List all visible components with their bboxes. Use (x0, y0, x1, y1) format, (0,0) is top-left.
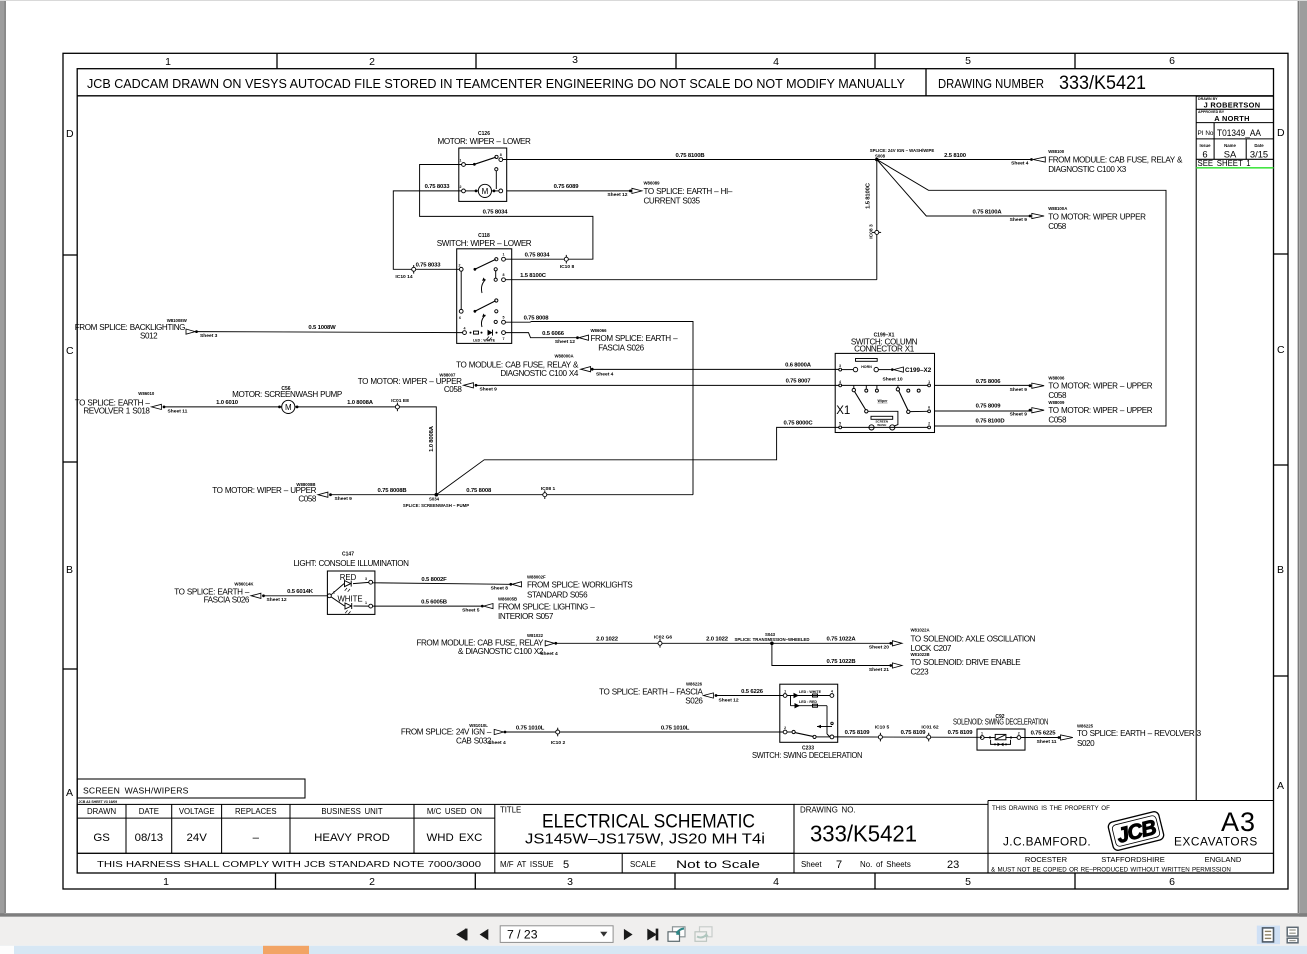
svg-text:5: 5 (965, 55, 971, 67)
svg-text:333/K5421: 333/K5421 (810, 821, 917, 847)
svg-text:5: 5 (563, 859, 569, 871)
svg-text:3: 3 (839, 364, 841, 368)
connector X1 box (835, 332, 934, 432)
svg-text:IC10 8: IC10 8 (560, 264, 575, 270)
JCB logo (1107, 811, 1164, 852)
svg-text:0.75 8034: 0.75 8034 (525, 253, 551, 259)
svg-text:2.0 1022: 2.0 1022 (706, 637, 729, 643)
connector IC08 1 (541, 486, 556, 499)
wire 8034 motor pin1 loop to switch pin1 (420, 165, 593, 260)
svg-text:STAFFORDSHIRE: STAFFORDSHIRE (1101, 855, 1165, 864)
svg-text:INTERIOR S057: INTERIOR S057 (498, 612, 554, 621)
toolbar continuous layout button (1287, 927, 1298, 943)
svg-text:C126: C126 (478, 131, 490, 137)
wire 8000C X1 pin5 to splice S034 (436, 427, 839, 494)
toolbar rotate-view icon active (668, 927, 685, 942)
svg-text:TO SPLICE: EARTH – HI–: TO SPLICE: EARTH – HI– (644, 187, 733, 196)
title block: harness note row (77, 852, 1273, 854)
svg-text:TITLE: TITLE (500, 806, 521, 815)
svg-text:DRAWING NUMBER: DRAWING NUMBER (938, 76, 1044, 91)
wire 8100D splice diagonal to loop and X1 pin2 (877, 160, 1166, 427)
svg-text:IC01 62: IC01 62 (921, 724, 938, 730)
connector IC01 E8 (391, 398, 409, 411)
svg-text:REVOLVER 1 S018: REVOLVER 1 S018 (83, 407, 150, 416)
svg-text:C199–X2: C199–X2 (905, 367, 932, 374)
svg-text:C: C (1277, 344, 1285, 356)
svg-text:T01349_AA: T01349_AA (1217, 127, 1262, 138)
svg-text:W88000A: W88000A (555, 354, 574, 359)
title block: property box (987, 801, 989, 874)
svg-text:0.5 8002F: 0.5 8002F (421, 577, 447, 583)
svg-text:REPLACES: REPLACES (235, 807, 277, 816)
svg-text:ROCESTER: ROCESTER (1025, 855, 1068, 864)
svg-text:Name: Name (1224, 143, 1236, 148)
svg-text:1: 1 (784, 689, 786, 693)
svg-text:CAB S032: CAB S032 (456, 737, 492, 746)
svg-text:W81022: W81022 (527, 633, 544, 638)
row letters right (1277, 127, 1285, 792)
svg-text:IC10 5: IC10 5 (875, 724, 890, 730)
svg-text:Date: Date (1254, 143, 1264, 148)
wire 8000A module X4 arrow to X1 pin3 (594, 368, 839, 370)
column tick marks bottom (276, 873, 1076, 889)
wire 6005B C147 pin1 to lighting arrow (373, 605, 481, 607)
svg-text:0.75 6225: 0.75 6225 (1031, 731, 1057, 737)
motor screenwash pump C56 (232, 386, 342, 413)
svg-text:DIAGNOSTIC C100 X4: DIAGNOSTIC C100 X4 (500, 369, 579, 378)
svg-text:D: D (66, 128, 74, 140)
wire 6225 C92 to earth revolver arrow (1021, 737, 1058, 739)
svg-text:1.5 8100C: 1.5 8100C (520, 273, 547, 279)
svg-text:0.5 6066: 0.5 6066 (542, 331, 565, 337)
svg-text:Sheet 20: Sheet 20 (869, 645, 889, 651)
svg-text:BUSINESS UNIT: BUSINESS UNIT (321, 807, 383, 816)
svg-text:WHITE: WHITE (337, 595, 362, 604)
svg-text:6: 6 (1169, 876, 1175, 888)
svg-text:Sheet 21: Sheet 21 (869, 667, 889, 673)
connector IC10 5 (875, 724, 890, 741)
svg-text:Sheet 12: Sheet 12 (267, 597, 287, 603)
svg-text:MOTOR: WIPER – LOWER: MOTOR: WIPER – LOWER (438, 137, 532, 146)
svg-text:4: 4 (839, 380, 841, 384)
svg-text:C058: C058 (444, 385, 463, 394)
svg-text:S012: S012 (140, 331, 158, 340)
svg-text:SPLICE: TRANSMISSION–WHEELED: SPLICE: TRANSMISSION–WHEELED (735, 637, 810, 642)
svg-text:1: 1 (365, 601, 367, 605)
wire 1008W backlighting arrow to switch pin4 (198, 332, 463, 333)
svg-text:W86066: W86066 (591, 328, 608, 333)
svg-text:1: 1 (503, 253, 505, 257)
svg-text:Sheet 4: Sheet 4 (596, 371, 614, 377)
svg-text:0.75 8109: 0.75 8109 (948, 730, 974, 736)
svg-text:PI No: PI No (1198, 130, 1214, 137)
toolbar next-page button (624, 929, 633, 940)
svg-text:6: 6 (928, 406, 930, 410)
svg-text:Sheet 9: Sheet 9 (1010, 411, 1028, 417)
svg-text:GS: GS (93, 832, 110, 844)
svg-text:& MUST NOT BE COPIED OR RE–PRO: & MUST NOT BE COPIED OR RE–PRODUCED WITH… (991, 867, 1231, 874)
wire 8007 wiper upper arrow to X1 pin4 (477, 384, 839, 386)
svg-text:1.0 8008A: 1.0 8008A (347, 400, 374, 406)
svg-text:8: 8 (500, 153, 502, 157)
svg-text:IC02 G6: IC02 G6 (654, 634, 672, 640)
svg-text:2: 2 (1018, 732, 1020, 736)
wire 8109 C233 pin to solenoid C92 (834, 736, 982, 738)
svg-text:0.75 1022B: 0.75 1022B (827, 659, 856, 665)
svg-text:LED : RED: LED : RED (799, 700, 817, 704)
svg-text:–: – (253, 832, 260, 844)
svg-text:S043: S043 (765, 632, 776, 637)
svg-text:3: 3 (567, 876, 573, 888)
svg-text:0.75 8033: 0.75 8033 (425, 184, 451, 190)
svg-text:M: M (285, 403, 292, 412)
svg-text:IC10 14: IC10 14 (395, 274, 412, 280)
svg-text:A: A (1277, 780, 1284, 792)
window left grey edge (0, 0, 5, 915)
title block: table values (93, 832, 482, 844)
title block: sheet name box (77, 779, 305, 798)
svg-text:2: 2 (369, 876, 375, 888)
pdf viewer bottom status strip (0, 946, 1307, 954)
svg-text:& DIAGNOSTIC C100 X2: & DIAGNOSTIC C100 X2 (458, 647, 544, 656)
svg-text:4: 4 (464, 327, 466, 331)
svg-text:W88006: W88006 (1048, 375, 1065, 380)
splice S034 junction (435, 493, 439, 497)
svg-text:HORN: HORN (861, 365, 872, 369)
svg-text:No. of Sheets: No. of Sheets (860, 860, 911, 869)
svg-text:VOLTAGE: VOLTAGE (179, 807, 215, 816)
svg-text:W81022A: W81022A (911, 627, 930, 632)
svg-text:Sheet 9: Sheet 9 (1010, 217, 1028, 223)
svg-text:0.75 1010L: 0.75 1010L (661, 725, 690, 731)
svg-text:2: 2 (784, 726, 786, 730)
toolbar last-page button (647, 929, 658, 941)
svg-text:FASCIA S026: FASCIA S026 (598, 344, 644, 353)
svg-text:8: 8 (503, 273, 505, 277)
svg-text:RED: RED (340, 573, 357, 582)
wire 8033 motor pin2 left loop to switch pin2 (393, 191, 461, 269)
svg-text:FASCIA S026: FASCIA S026 (204, 596, 250, 605)
svg-text:6: 6 (1169, 55, 1175, 67)
svg-text:23: 23 (947, 859, 959, 871)
svg-text:Sheet 11: Sheet 11 (1037, 739, 1057, 745)
svg-text:WHD EXC: WHD EXC (427, 832, 483, 844)
window right grey edge (1299, 0, 1307, 917)
svg-text:0.5 1008W: 0.5 1008W (308, 325, 336, 331)
svg-text:MOTOR: SCREENWASH PUMP: MOTOR: SCREENWASH PUMP (232, 390, 342, 399)
svg-text:ENGLAND: ENGLAND (1205, 855, 1242, 864)
svg-text:3: 3 (365, 577, 367, 581)
svg-text:J.C.BAMFORD.: J.C.BAMFORD. (1003, 835, 1091, 849)
svg-text:Sheet 9: Sheet 9 (1010, 387, 1028, 393)
svg-text:2: 2 (459, 263, 461, 267)
svg-text:HEAVY PROD: HEAVY PROD (314, 832, 390, 844)
wire 8002F C147 pin3 to worklights arrow (373, 583, 510, 585)
svg-text:WASH: WASH (877, 423, 886, 427)
svg-text:IC08 3: IC08 3 (869, 224, 875, 239)
svg-text:LED : WHITE: LED : WHITE (473, 338, 496, 342)
svg-text:W86010: W86010 (138, 391, 155, 396)
title block: table headers (87, 807, 482, 816)
solenoid C92 box (953, 714, 1048, 750)
column numbers top (165, 54, 1175, 68)
svg-text:SPLICE: SCREENWASH – PUMP: SPLICE: SCREENWASH – PUMP (403, 503, 469, 508)
wire 1022A S043 to axle oscillation arrow (772, 642, 890, 644)
wire 8100B motor pin8 to splice S008 (503, 159, 877, 161)
svg-text:CONNECTOR X1: CONNECTOR X1 (854, 344, 915, 353)
svg-text:DIAGNOSTIC C100 X3: DIAGNOSTIC C100 X3 (1048, 165, 1127, 174)
svg-text:0.5 6005B: 0.5 6005B (421, 599, 447, 605)
pdf viewer toolbar background (0, 917, 1307, 946)
title block: main table outline (77, 804, 794, 853)
svg-text:JS145W–JS175W, JS20 MH T4i: JS145W–JS175W, JS20 MH T4i (525, 831, 765, 848)
svg-text:FROM MODULE: CAB FUSE, RELAY &: FROM MODULE: CAB FUSE, RELAY & (1048, 156, 1183, 165)
svg-text:SOLENOID: SWING DECELERATION: SOLENOID: SWING DECELERATION (953, 718, 1048, 727)
svg-text:1: 1 (460, 159, 462, 163)
svg-text:4: 4 (773, 56, 779, 68)
svg-text:D: D (1277, 127, 1285, 139)
svg-text:2.0 1022: 2.0 1022 (596, 637, 619, 643)
svg-text:0.75 8100D: 0.75 8100D (976, 418, 1005, 424)
svg-text:1.0 6010: 1.0 6010 (216, 400, 239, 406)
svg-text:SWITCH: SWING DECELERATION: SWITCH: SWING DECELERATION (752, 751, 863, 760)
svg-text:W86014K: W86014K (234, 582, 254, 587)
svg-text:C147: C147 (342, 552, 354, 558)
toolbar page number combo box (500, 926, 613, 943)
svg-text:2: 2 (369, 56, 375, 68)
svg-text:0.75 8100A: 0.75 8100A (973, 209, 1003, 215)
svg-text:0.75 8000C: 0.75 8000C (784, 421, 814, 427)
pdf viewer separator bar (0, 913, 1307, 917)
switch C118 box (437, 233, 532, 343)
svg-text:Sheet 12: Sheet 12 (607, 192, 627, 198)
column tick marks top (277, 53, 1075, 68)
svg-text:7: 7 (836, 859, 842, 871)
svg-text:DRAWING NO.: DRAWING NO. (800, 806, 856, 815)
svg-text:0.75 1022A: 0.75 1022A (827, 637, 857, 643)
svg-text:C: C (66, 345, 74, 357)
wire 1022B S043 drop to drive enable arrow (772, 643, 890, 665)
svg-text:Wiper: Wiper (878, 399, 889, 403)
svg-text:C223: C223 (911, 668, 930, 677)
svg-text:W88100A: W88100A (1048, 206, 1067, 211)
svg-text:0.75 8033: 0.75 8033 (416, 263, 442, 269)
svg-text:W81022B: W81022B (911, 652, 930, 657)
connector IC10 2 (551, 728, 566, 746)
svg-text:C058: C058 (1048, 222, 1067, 231)
svg-text:7: 7 (503, 337, 505, 341)
motor C126 box (438, 131, 532, 202)
svg-text:0.75 8034: 0.75 8034 (483, 210, 509, 216)
connector IC10 8 (560, 255, 575, 270)
svg-text:A: A (66, 787, 73, 799)
svg-text:W86226: W86226 (686, 682, 703, 687)
svg-text:2.5 8100: 2.5 8100 (944, 153, 967, 159)
svg-text:Sheet: Sheet (801, 860, 822, 869)
svg-text:0.5 6014K: 0.5 6014K (287, 589, 314, 595)
svg-text:0.75 8008: 0.75 8008 (466, 488, 492, 494)
wire 8008B S034 to wiper upper arrow (332, 494, 437, 496)
svg-text:STANDARD S056: STANDARD S056 (527, 590, 588, 599)
svg-text:0.75 6089: 0.75 6089 (554, 184, 580, 190)
svg-text:THIS DRAWING IS THE PROPERTY O: THIS DRAWING IS THE PROPERTY OF (992, 805, 1110, 812)
svg-text:0.75 8007: 0.75 8007 (786, 379, 812, 385)
svg-text:IC10 2: IC10 2 (551, 740, 566, 746)
svg-text:Sheet 12: Sheet 12 (555, 339, 575, 345)
light console illumination C147 (293, 552, 409, 615)
wire 8009 X1 pin7 to wiper upper arrow (934, 410, 1029, 412)
svg-text:M/F AT ISSUE: M/F AT ISSUE (500, 860, 554, 869)
wire 8100C vertical splice down to switch row (876, 160, 878, 280)
wire 1010L cab ign arrow to IC10 2 to C233 pin2 (506, 731, 784, 733)
svg-text:M/C USED ON: M/C USED ON (427, 807, 482, 816)
svg-text:FROM SPLICE: BACKLIGHTING: FROM SPLICE: BACKLIGHTING (75, 323, 185, 332)
svg-text:S034: S034 (429, 497, 440, 502)
svg-text:0.5 6226: 0.5 6226 (741, 689, 764, 695)
svg-text:J ROBERTSON: J ROBERTSON (1204, 100, 1261, 109)
svg-text:0.6 8000A: 0.6 8000A (785, 363, 812, 369)
wire 1022 module X2 arrow to IC02 and splice S043 (557, 642, 772, 644)
svg-text:B: B (66, 564, 73, 576)
window top edge line (0, 0, 1307, 2)
svg-text:SCREEN WASH/WIPERS: SCREEN WASH/WIPERS (83, 786, 189, 796)
svg-text:DRAWN: DRAWN (87, 807, 116, 816)
svg-text:333/K5421: 333/K5421 (1059, 73, 1146, 94)
row tick marks right (1274, 254, 1289, 676)
svg-text:5: 5 (965, 876, 971, 888)
svg-text:Sheet 8: Sheet 8 (491, 586, 509, 592)
svg-text:TO SOLENOID: AXLE OSCILLATION: TO SOLENOID: AXLE OSCILLATION (911, 635, 1036, 644)
svg-text:5: 5 (503, 316, 505, 320)
wire 6010 earth revolver arrow to pump (165, 406, 282, 408)
svg-text:2: 2 (460, 185, 462, 189)
svg-text:6: 6 (459, 316, 461, 320)
svg-text:5: 5 (839, 421, 841, 425)
svg-text:SPLICE: 24V IGN – WASH/WIPE: SPLICE: 24V IGN – WASH/WIPE (870, 148, 935, 153)
svg-text:C058: C058 (298, 494, 317, 503)
svg-text:FROM SPLICE: LIGHTING –: FROM SPLICE: LIGHTING – (498, 602, 595, 611)
svg-text:W86225: W86225 (1077, 723, 1094, 728)
svg-text:JCB CADCAM DRAWN ON VESYS AUT: JCB CADCAM DRAWN ON VESYS AUTOCAD FILE S… (87, 76, 905, 91)
svg-text:08/13: 08/13 (135, 832, 164, 844)
svg-text:S026: S026 (685, 697, 703, 706)
toolbar first-page button (456, 929, 467, 941)
svg-text:IC01 E8: IC01 E8 (391, 398, 409, 404)
svg-text:LIGHT: CONSOLE ILLUMINATION: LIGHT: CONSOLE ILLUMINATION (293, 559, 409, 568)
connector IC08 3 on vertical (869, 224, 882, 239)
svg-text:Sheet 11: Sheet 11 (168, 408, 188, 414)
svg-text:0.75 8006: 0.75 8006 (976, 379, 1002, 385)
svg-text:4: 4 (831, 689, 833, 693)
svg-text:Not to Scale: Not to Scale (676, 859, 760, 871)
svg-text:S008: S008 (875, 153, 886, 158)
svg-text:0.75 8008: 0.75 8008 (524, 316, 550, 322)
svg-text:W88100: W88100 (1048, 149, 1065, 154)
svg-text:0.75 8009: 0.75 8009 (976, 404, 1002, 410)
svg-text:0.75 8109: 0.75 8109 (845, 730, 871, 736)
svg-text:Sheet 4: Sheet 4 (1011, 161, 1029, 167)
svg-text:1.0 8008A: 1.0 8008A (429, 425, 435, 452)
svg-text:THIS HARNESS SHALL COMPLY WITH: THIS HARNESS SHALL COMPLY WITH JCB STAND… (97, 860, 482, 869)
row tick marks left (63, 255, 77, 669)
wire 8100A splice diagonal to wiper upper arrow (877, 160, 1030, 217)
connector IC02 G6 (654, 634, 672, 647)
svg-text:C058: C058 (1048, 391, 1067, 400)
svg-text:W86005B: W86005B (498, 596, 517, 601)
svg-text:W88009: W88009 (1048, 400, 1065, 405)
wire 8100 splice to module X3 arrow (877, 159, 1031, 161)
svg-text:TO SPLICE: EARTH – REVOLVER 3: TO SPLICE: EARTH – REVOLVER 3 (1077, 729, 1202, 738)
svg-text:M: M (482, 187, 489, 196)
svg-text:1: 1 (165, 56, 171, 68)
svg-text:FROM SPLICE: EARTH –: FROM SPLICE: EARTH – (591, 334, 679, 343)
row letters left (66, 128, 74, 799)
svg-text:Issue: Issue (1200, 143, 1212, 148)
title block: drawing no box (793, 804, 795, 873)
title block: M/F at issue cell (494, 853, 496, 873)
svg-text:W86089: W86089 (644, 181, 661, 186)
wire 6226 fascia arrow to C233 pin1 (717, 695, 783, 697)
svg-text:TO SOLENOID: DRIVE ENABLE: TO SOLENOID: DRIVE ENABLE (911, 658, 1022, 667)
revision block top line (1196, 95, 1273, 97)
svg-text:C058: C058 (1048, 416, 1067, 425)
connector IC10 14 (395, 265, 415, 280)
svg-text:LED : WHITE: LED : WHITE (799, 690, 822, 694)
svg-text:0.75 8109: 0.75 8109 (901, 730, 927, 736)
wire 8006 X1 pin1 to wiper upper arrow (934, 384, 1029, 386)
svg-text:4: 4 (773, 876, 779, 888)
svg-text:3/15: 3/15 (1250, 149, 1268, 160)
wire 6089 motor pin2 right to earth arrow (507, 190, 630, 192)
wire 8008 switch pin5 to vertical riser (505, 322, 693, 495)
svg-text:1: 1 (981, 732, 983, 736)
splice S008 junction (875, 158, 879, 162)
revision block column verticals (1195, 96, 1197, 800)
toolbar single-page layout button selected (1257, 926, 1280, 945)
wire 8100C switch pin8 to splice vertical (505, 279, 876, 281)
wire 8008A pump to IC01 and riser to S034 (295, 407, 436, 495)
svg-text:FROM SPLICE: WORKLIGHTS: FROM SPLICE: WORKLIGHTS (527, 581, 633, 590)
svg-text:SEE SHEET 1: SEE SHEET 1 (1198, 159, 1251, 168)
connector IC01 62 (921, 724, 938, 741)
svg-text:CURRENT S035: CURRENT S035 (644, 197, 701, 206)
svg-text:2: 2 (928, 421, 930, 425)
svg-text:1: 1 (163, 876, 169, 888)
status strip orange segment (263, 946, 309, 954)
svg-text:Sheet 3: Sheet 3 (200, 333, 218, 339)
toolbar previous-page button (480, 929, 489, 940)
svg-text:TO SPLICE: EARTH – FASCIA: TO SPLICE: EARTH – FASCIA (599, 687, 703, 696)
header row bottom line (77, 95, 1273, 97)
svg-text:W88002F: W88002F (527, 575, 546, 580)
svg-text:ELECTRICAL SCHEMATIC: ELECTRICAL SCHEMATIC (542, 811, 755, 833)
column numbers bottom (163, 876, 1175, 888)
svg-text:A3: A3 (1221, 807, 1256, 837)
svg-text:Sheet 10: Sheet 10 (882, 377, 902, 383)
svg-text:FROM SPLICE: 24V IGN –: FROM SPLICE: 24V IGN – (401, 728, 492, 737)
svg-text:B: B (1277, 564, 1284, 576)
svg-text:IC08 1: IC08 1 (541, 486, 556, 492)
status strip white corner (0, 946, 14, 954)
switch C233 box (780, 684, 838, 742)
header divider (925, 69, 927, 96)
svg-text:0.75 8008B: 0.75 8008B (378, 488, 407, 494)
svg-text:A NORTH: A NORTH (1214, 114, 1250, 123)
svg-text:Sheet 9: Sheet 9 (335, 496, 353, 502)
svg-text:0.75 8100B: 0.75 8100B (676, 153, 705, 159)
svg-text:JCB A3 SHEET V3 16/09: JCB A3 SHEET V3 16/09 (79, 800, 118, 804)
svg-text:TO MOTOR: WIPER UPPER: TO MOTOR: WIPER UPPER (1048, 213, 1146, 222)
